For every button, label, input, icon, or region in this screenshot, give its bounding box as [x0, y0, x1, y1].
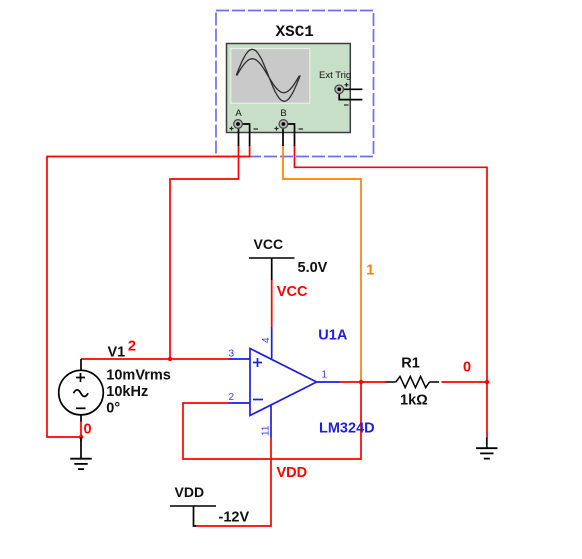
svg-text:XSC1: XSC1	[275, 23, 313, 41]
wire: V1 top red stub	[80, 359, 82, 371]
wire feedback: output junction down, left, up to op-amp pin 2	[183, 382, 361, 459]
scope channel B polarity marks	[275, 127, 304, 131]
wire net 0: scope B- down, right, down to R1 right junction	[295, 145, 488, 382]
svg-text:0: 0	[84, 422, 92, 438]
op-amp pin 2 stub	[229, 402, 251, 404]
VDD power symbol	[170, 506, 216, 526]
svg-text:VCC: VCC	[254, 236, 284, 252]
voltage source V1	[59, 370, 104, 415]
wire net 1: scope B+ down, right, down to op-amp output junction (orange)	[283, 145, 361, 381]
svg-text:VCC: VCC	[277, 284, 308, 300]
svg-text:10kHz: 10kHz	[106, 384, 148, 400]
svg-text:1: 1	[366, 263, 374, 279]
resistor R1	[386, 376, 439, 387]
scope channel A terminal	[234, 120, 243, 129]
svg-text:VDD: VDD	[277, 465, 308, 481]
ground symbol at R1 output	[476, 438, 497, 459]
wire: V1 bottom black stub	[80, 415, 82, 422]
scope terminal B minus bracket (black)	[287, 124, 295, 146]
scope channel B terminal	[279, 120, 288, 129]
svg-text:VDD: VDD	[175, 484, 205, 500]
svg-text:0°: 0°	[106, 401, 120, 417]
scope Ext Trig terminal	[335, 85, 344, 94]
svg-text:3: 3	[229, 349, 235, 360]
wire: V1 bottom to ground junction	[80, 421, 82, 442]
junction dot net 2 at V1 wire	[168, 357, 172, 361]
svg-text:10mVrms: 10mVrms	[106, 368, 171, 384]
svg-text:LM324D: LM324D	[319, 420, 375, 436]
junction dot net 0 at R1 right	[485, 380, 489, 384]
oscilloscope XSC1 selection box	[216, 11, 374, 157]
wire net 0: R1 right junction down to ground	[486, 382, 488, 438]
wire net 2: V1 plus terminal to op-amp pin 3	[81, 358, 229, 360]
op-amp pin 3 stub	[229, 358, 251, 360]
svg-text:2: 2	[128, 339, 136, 355]
junction dot net 0 at V1 bottom	[79, 435, 83, 439]
svg-text:R1: R1	[401, 355, 420, 371]
wire net VCC: VCC symbol to op-amp pin 4	[271, 279, 273, 327]
svg-text:A: A	[235, 108, 242, 119]
scope screen waveform trace channel B	[237, 59, 300, 93]
scope terminal B stub (black)	[282, 128, 284, 146]
scope terminal A stub (black)	[238, 128, 240, 146]
oscilloscope XSC1 body	[227, 44, 351, 133]
scope Ext Trig polarity marks	[344, 83, 349, 105]
scope terminal A minus bracket (black)	[242, 124, 250, 146]
svg-text:2: 2	[229, 392, 235, 403]
op-amp U1A triangle	[250, 349, 317, 416]
scope Ext Trig stub wires (black)	[344, 88, 363, 90]
svg-text:5.0V: 5.0V	[298, 260, 328, 276]
svg-text:1kΩ: 1kΩ	[400, 392, 428, 408]
svg-text:1: 1	[322, 370, 328, 381]
op-amp pin 11 stub	[270, 405, 272, 438]
op-amp pin 4 stub	[271, 327, 273, 359]
wire net VDD: op-amp pin 11 down to VDD rail	[195, 438, 271, 527]
junction dot net 1 at op-amp output	[359, 380, 363, 384]
svg-text:-12V: -12V	[219, 510, 250, 526]
svg-text:4: 4	[261, 337, 272, 343]
wire net 0: scope A- down-left-down to V1 bottom junction	[47, 145, 250, 437]
svg-text:11: 11	[261, 425, 272, 436]
svg-text:B: B	[280, 108, 286, 119]
VCC power symbol	[249, 258, 295, 280]
wire: R1 right lead to junction	[441, 381, 487, 383]
svg-text:0: 0	[463, 359, 471, 375]
wire net 2: scope A+ down, left, down to junction on V1 wire	[170, 145, 239, 359]
svg-text:Ext Trig: Ext Trig	[319, 70, 351, 81]
op-amp output pin 1 stub	[317, 381, 340, 383]
svg-text:U1A: U1A	[318, 327, 348, 343]
svg-text:V1: V1	[108, 345, 126, 361]
scope channel A polarity marks	[230, 127, 259, 131]
wire: op-amp output to R1 left lead	[339, 381, 386, 383]
scope screen waveform trace channel A	[236, 49, 300, 101]
ground symbol at V1	[70, 437, 91, 469]
